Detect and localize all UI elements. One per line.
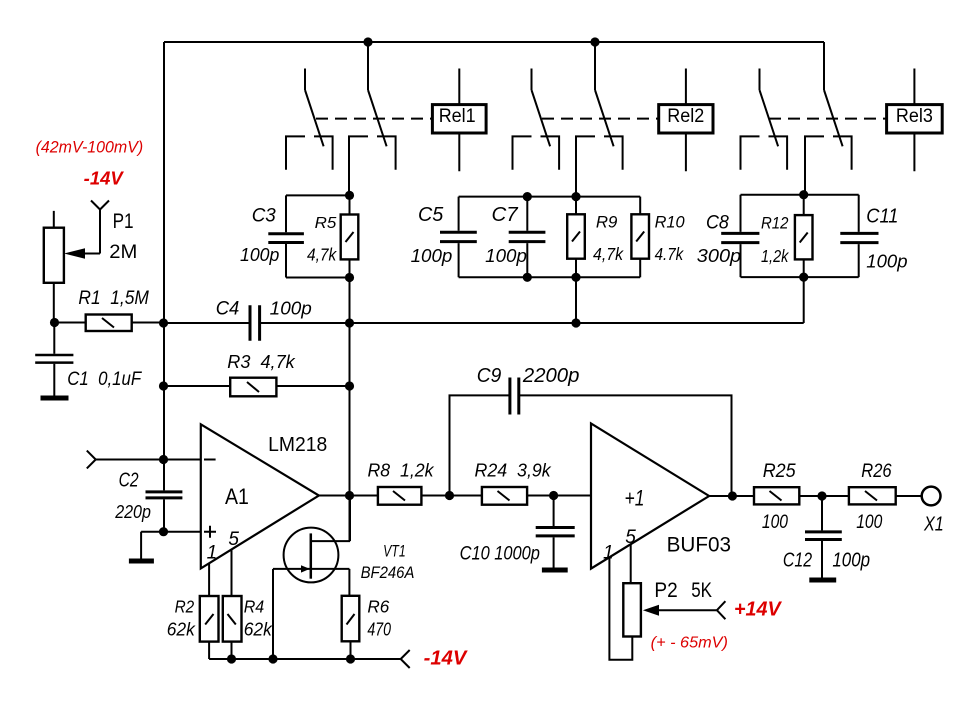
svg-text:LM218: LM218 xyxy=(268,434,327,456)
capacitor C1 xyxy=(35,323,73,397)
svg-text:300p: 300p xyxy=(697,245,741,266)
wire pin5 of buffer to P2 xyxy=(630,544,632,583)
capacitor C10 xyxy=(536,496,575,569)
capacitor C8 xyxy=(721,195,759,277)
wire source of VT1 down to R6 xyxy=(348,569,350,596)
svg-text:100p: 100p xyxy=(832,549,870,571)
resistor R12 xyxy=(795,195,813,277)
svg-text:5: 5 xyxy=(228,529,239,550)
relay Rel1 switch contact a xyxy=(286,69,333,170)
wire R26 to X1 xyxy=(896,495,922,497)
network2 bottom rail xyxy=(459,276,641,278)
svg-text:2200p: 2200p xyxy=(522,365,580,387)
relay Rel2 switch contact b xyxy=(576,42,623,197)
ground below C12 xyxy=(809,578,836,583)
svg-text:Rel1: Rel1 xyxy=(439,105,476,127)
svg-text:100p: 100p xyxy=(240,245,279,265)
capacitor C2 xyxy=(146,492,183,498)
resistor R6 xyxy=(342,596,360,659)
svg-text:-14V: -14V xyxy=(424,647,468,669)
wire right vertical rail (bus to JFET drain) xyxy=(349,323,351,541)
node A1 output xyxy=(345,491,354,500)
dashed actuation link Rel2 xyxy=(542,118,659,120)
svg-text:4.7k: 4.7k xyxy=(655,244,685,264)
resistor R24 xyxy=(482,487,527,505)
svg-text:-14V: -14V xyxy=(84,169,125,189)
wiper arrowhead of P1 xyxy=(64,248,85,258)
resistor R1 xyxy=(55,315,164,332)
resistor R2 xyxy=(200,596,219,642)
svg-text:R10: R10 xyxy=(655,213,686,232)
connector X1 xyxy=(922,487,941,506)
network3 bottom rail xyxy=(741,276,859,278)
svg-text:R12: R12 xyxy=(761,214,789,233)
svg-text:C3: C3 xyxy=(252,206,277,227)
resistor R3 xyxy=(164,378,350,397)
svg-text:R5: R5 xyxy=(315,215,337,232)
svg-text:C4: C4 xyxy=(216,298,240,319)
network1 top rail xyxy=(286,194,350,196)
svg-text:5K: 5K xyxy=(691,579,712,602)
wire network2 to bus xyxy=(575,277,577,323)
node R12 bottom xyxy=(799,273,808,282)
svg-text:C5: C5 xyxy=(418,204,444,226)
relay Rel1 switch contact b xyxy=(349,42,396,195)
node top bus / Rel1 switch b xyxy=(363,37,372,46)
node network2 / bus xyxy=(571,318,580,327)
node buffer output xyxy=(728,491,737,500)
network1 bottom rail xyxy=(286,277,350,279)
svg-text:100: 100 xyxy=(762,512,788,533)
capacitor C9 with feedback loop wire xyxy=(450,378,732,497)
wire pin1 of buffer to P2 bottom loop xyxy=(609,557,632,660)
resistor R10 xyxy=(631,197,649,278)
svg-text:C7: C7 xyxy=(492,204,519,226)
ground below C1 xyxy=(41,396,69,401)
-14V supply fork bottom xyxy=(401,650,410,668)
node R9 top xyxy=(571,192,580,201)
node C12 branch xyxy=(817,491,826,500)
wire R2 bottom to rail xyxy=(208,642,210,659)
svg-text:100p: 100p xyxy=(411,245,453,266)
svg-text:C9: C9 xyxy=(477,365,502,387)
node R3 right xyxy=(345,381,354,390)
wiper arrowhead of P2 xyxy=(643,605,659,616)
node C10 branch xyxy=(549,491,558,500)
wire R8 to R24 xyxy=(421,495,482,497)
resistor R4 xyxy=(223,596,242,642)
transistor VT1 xyxy=(273,528,350,583)
ground below C2 xyxy=(129,559,154,564)
relay Rel3 switch contact a xyxy=(741,69,788,170)
dashed actuation link Rel3 xyxy=(769,118,887,120)
wire R4 bottom to rail xyxy=(231,642,233,659)
svg-text:C12: C12 xyxy=(783,549,812,571)
svg-text:C8: C8 xyxy=(706,213,729,234)
svg-text:C10 1000p: C10 1000p xyxy=(460,544,540,565)
wire top supply bus xyxy=(164,41,824,43)
node C2 bottom / noninverting input xyxy=(159,527,168,536)
svg-text:+1: +1 xyxy=(625,486,645,511)
svg-text:R25: R25 xyxy=(763,460,796,482)
capacitor C7 xyxy=(509,197,546,278)
svg-text:VT1: VT1 xyxy=(383,542,406,561)
wire pin5 of A1 to R4 xyxy=(231,550,233,597)
svg-text:R9: R9 xyxy=(596,213,618,232)
wire wiper of P2 to +14V xyxy=(657,609,717,611)
svg-text:100p: 100p xyxy=(485,245,527,266)
svg-text:X1: X1 xyxy=(923,514,944,536)
input fork arrow xyxy=(87,451,96,469)
svg-text:1: 1 xyxy=(207,543,218,564)
svg-text:220p: 220p xyxy=(114,501,151,522)
wire network1 to bus xyxy=(349,278,351,324)
svg-text:A1: A1 xyxy=(225,484,249,509)
resistor R26 xyxy=(849,487,896,504)
node network1 bottom xyxy=(345,273,354,282)
potentiometer P2 xyxy=(623,583,641,636)
svg-text:BF246A: BF246A xyxy=(361,563,415,582)
network2 top rail xyxy=(459,196,641,198)
wire gate of VT1 down to rail xyxy=(272,569,274,659)
wire lower horizontal bus xyxy=(164,322,804,324)
node R3 left xyxy=(159,381,168,390)
svg-text:100p: 100p xyxy=(866,251,907,272)
svg-text:R26: R26 xyxy=(861,460,891,482)
svg-text:2M: 2M xyxy=(109,242,137,263)
node R12 top xyxy=(799,190,808,199)
svg-text:C11: C11 xyxy=(866,205,898,227)
svg-text:1: 1 xyxy=(603,543,614,564)
svg-text:62k: 62k xyxy=(167,618,197,639)
svg-text:62k: 62k xyxy=(244,618,274,639)
svg-text:+14V: +14V xyxy=(734,599,782,621)
capacitor C11 xyxy=(840,195,878,277)
svg-text:R3 4,7k: R3 4,7k xyxy=(227,351,296,372)
svg-text:Rel2: Rel2 xyxy=(667,105,704,127)
svg-text:C2: C2 xyxy=(119,470,139,492)
op-amp A1 xyxy=(201,424,319,568)
node junction R1/C4/left rail xyxy=(159,318,168,327)
svg-text:100: 100 xyxy=(856,512,882,533)
dashed actuation link Rel1 xyxy=(316,118,432,120)
node junction P1/R1/C1 xyxy=(50,318,59,327)
svg-text:470: 470 xyxy=(367,618,391,639)
svg-text:P1: P1 xyxy=(113,210,134,233)
wire R25 to R26 xyxy=(799,495,849,497)
svg-text:R4: R4 xyxy=(244,596,265,616)
relay coil Rel3 xyxy=(887,69,943,172)
wire left vertical rail xyxy=(163,42,165,532)
node C7 bottom xyxy=(523,273,532,282)
wire network3 to bus xyxy=(803,277,805,323)
node network1 / bus xyxy=(345,318,354,327)
svg-text:(42mV-100mV): (42mV-100mV) xyxy=(36,138,144,157)
svg-text:R2: R2 xyxy=(175,596,195,616)
node C7 top xyxy=(523,192,532,201)
svg-text:P2: P2 xyxy=(654,579,677,602)
wire to ground from noninverting input xyxy=(140,532,142,559)
wire buffer output to R25 xyxy=(709,495,754,497)
svg-text:R24 3,9k: R24 3,9k xyxy=(475,460,553,481)
wire negative supply rail xyxy=(209,658,401,660)
node R4 / rail xyxy=(227,654,236,663)
op-amp buffer U2 xyxy=(591,424,709,569)
capacitor C5 xyxy=(440,197,477,278)
wire A1 output to R8 xyxy=(319,495,378,497)
relay Rel2 switch contact a xyxy=(513,69,560,170)
resistor R9 xyxy=(567,197,585,278)
relay coil Rel1 xyxy=(432,69,486,172)
node gate wire / rail xyxy=(268,654,277,663)
svg-text:Rel3: Rel3 xyxy=(896,105,933,127)
potentiometer P1 xyxy=(44,211,64,323)
svg-text:1,2k: 1,2k xyxy=(761,246,789,266)
svg-text:C1 0,1uF: C1 0,1uF xyxy=(67,369,142,390)
svg-text:R8 1,2k: R8 1,2k xyxy=(368,460,436,481)
wire drain of VT1 up to output node xyxy=(349,496,351,542)
capacitor C3 xyxy=(268,195,304,277)
node R6 / rail xyxy=(346,654,355,663)
node top bus / Rel2 switch b xyxy=(590,37,599,46)
svg-text:4,7k: 4,7k xyxy=(593,244,624,264)
+14V supply fork xyxy=(717,601,726,619)
svg-text:4,7k: 4,7k xyxy=(307,245,337,265)
svg-text:BUF03: BUF03 xyxy=(667,534,731,557)
svg-text:R1 1,5M: R1 1,5M xyxy=(78,288,149,309)
svg-text:R6: R6 xyxy=(367,596,389,616)
wire pin1 of A1 to R2 xyxy=(208,563,210,596)
svg-text:100p: 100p xyxy=(270,297,312,318)
svg-text:(+ - 65mV): (+ - 65mV) xyxy=(651,635,728,652)
node network1 top xyxy=(345,191,354,200)
wire R24 to buffer input xyxy=(527,495,591,497)
node C9 branch left xyxy=(445,491,454,500)
resistor R25 xyxy=(754,487,799,504)
network3 top rail xyxy=(741,194,859,196)
relay coil Rel2 xyxy=(659,69,713,172)
resistor R8 xyxy=(378,487,422,505)
wire inverting input xyxy=(96,459,201,461)
node R9 bottom xyxy=(571,273,580,282)
ground below C10 xyxy=(542,568,568,573)
-14V supply fork for P1 xyxy=(84,201,109,254)
wire noninverting input row xyxy=(141,531,200,533)
node inverting input / rail xyxy=(159,455,168,464)
relay Rel3 switch contact b xyxy=(805,42,852,195)
capacitor C4 xyxy=(250,305,260,340)
capacitor C12 xyxy=(805,496,842,578)
resistor R5 xyxy=(341,195,359,277)
